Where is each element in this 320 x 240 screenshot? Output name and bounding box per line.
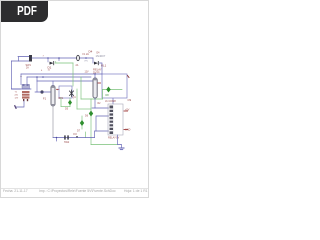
schematic drawing [1, 1, 150, 199]
junction dot bottom [56, 137, 58, 139]
svg-text:J1 CON8: J1 CON8 [105, 99, 116, 103]
diode D1 bar [53, 61, 55, 64]
svg-text:C9: C9 [128, 98, 132, 102]
green long vert [90, 99, 92, 145]
wire secondary to port [16, 101, 24, 107]
green relay inner vert [102, 90, 104, 100]
svg-text:2A: 2A [26, 67, 29, 70]
pin stub +5V [124, 110, 128, 112]
transformer primary lead 1 [20, 74, 22, 85]
green net D1 out [55, 62, 73, 64]
green LED leg right [69, 98, 71, 107]
svg-text:12V: 12V [85, 72, 90, 74]
svg-text:+5V: +5V [125, 109, 130, 112]
svg-text:D5: D5 [65, 108, 69, 111]
junction dot C [85, 57, 87, 59]
relay box K1 [102, 74, 127, 98]
PDF badge [1, 1, 48, 22]
wire lamp row [35, 91, 51, 93]
junction tick T1 lead [20, 76, 21, 77]
footer sheet text [124, 189, 148, 193]
wire AC neutral [11, 60, 30, 62]
bridge box BR1 [59, 86, 72, 98]
transformer pin b [27, 99, 28, 101]
wire D4 to relay box [100, 63, 103, 74]
rail VCC2 [27, 76, 91, 78]
diode D4 bar [97, 61, 99, 64]
svg-text:F1: F1 [43, 97, 47, 101]
svg-text:RELAY-5V: RELAY-5V [108, 137, 120, 140]
svg-text:Q1: Q1 [73, 96, 77, 99]
ground bar 1 [119, 147, 124, 149]
junction stub bottom [56, 138, 58, 142]
junction dot rail3 [36, 76, 38, 78]
pin gap 1 [110, 109, 114, 131]
svg-text:D8: D8 [106, 94, 110, 97]
svg-text:4: 4 [41, 70, 43, 72]
footer separator [1, 188, 150, 189]
bottom rail [53, 137, 95, 139]
green LED leg left [60, 98, 62, 107]
switch SW1 [29, 55, 32, 62]
svg-text:10: 10 [48, 70, 51, 72]
green horiz mid [77, 108, 91, 110]
svg-text:D7: D7 [77, 130, 81, 133]
svg-text:D4: D4 [89, 50, 93, 54]
fuse tube cap top [51, 86, 55, 88]
lamp DS1 [40, 90, 43, 93]
svg-text:12V: 12V [15, 98, 19, 100]
pin stub GND [124, 129, 128, 131]
transformer primary lead 2 [26, 77, 28, 85]
wire top rail [32, 57, 93, 59]
connector body J1 [108, 104, 123, 135]
capacitor C4 body [93, 78, 97, 98]
green vert led3 [81, 116, 83, 129]
transformer pin a [23, 99, 24, 101]
wire AC live top [18, 57, 30, 62]
wire relay to header [112, 99, 114, 105]
wire through transformer [11, 88, 31, 90]
switch SW2 contact a [64, 135, 66, 139]
green vert left2 [76, 89, 78, 109]
fuse tube FU1 [51, 86, 55, 107]
wire left drop to transformer [11, 61, 20, 89]
junction dot C4 [94, 73, 95, 74]
green drop to bridge [72, 63, 74, 86]
pin tick K1 [128, 76, 130, 78]
wire diode feed [47, 58, 49, 62]
wire header strap top [96, 116, 109, 131]
svg-text:F3: F3 [74, 132, 78, 136]
transformer nub a [23, 84, 25, 86]
connector pin ladder [110, 106, 114, 135]
junction dot rail2 [42, 76, 44, 78]
wire header strap bottom [95, 131, 110, 138]
green bottom run [91, 144, 118, 146]
svg-text:7: 7 [43, 56, 45, 58]
cap C4 top lead [94, 74, 96, 78]
svg-text:1N4007: 1N4007 [96, 54, 106, 58]
svg-text:SW1: SW1 [26, 64, 32, 67]
transformer nub b [27, 84, 29, 86]
switch SW2 contact b [67, 135, 69, 139]
LED D5 [68, 100, 72, 105]
transformer T1 winding 1 [22, 91, 30, 93]
transformer T1 top block [22, 85, 30, 90]
LED D6 [89, 111, 93, 117]
transformer T1 winding 2 [22, 94, 30, 96]
transistor Q1 [70, 90, 74, 97]
wire fuse top feed [52, 81, 54, 86]
svg-text:VIN: VIN [84, 60, 88, 62]
svg-text:SW2: SW2 [64, 141, 70, 144]
svg-text:R2: R2 [98, 103, 102, 105]
footer file path text [39, 189, 116, 193]
wire corner to D4 [92, 58, 94, 63]
power port P1 [15, 106, 16, 108]
footer date text [3, 189, 28, 193]
LED D7 [80, 120, 84, 126]
wire lamp feed [36, 81, 38, 92]
green LED bottom link [61, 106, 70, 108]
wire J1 to ground [118, 135, 122, 148]
fuse tube cap bottom [51, 104, 55, 106]
fuse F2 on rail [77, 55, 80, 60]
junction dot A [47, 57, 49, 59]
rail VCC1 [21, 73, 102, 75]
rail3 corner [36, 77, 38, 81]
node stub B [58, 58, 60, 61]
wire cap C4 bottom [94, 98, 96, 108]
green horiz to relay [81, 98, 103, 100]
green stub to rail [85, 132, 87, 138]
svg-text:220: 220 [15, 95, 19, 97]
fuse red tick [57, 88, 60, 90]
pin tick C4 [98, 82, 101, 84]
junction dot F3 [76, 136, 78, 138]
cap C4 top cap [93, 78, 97, 80]
svg-text:D6: D6 [85, 115, 89, 118]
rail VCC3 [37, 80, 93, 82]
wire to header pin1 [92, 107, 109, 109]
green relay inner horiz [103, 89, 123, 91]
transformer T1 winding 3 [22, 96, 30, 98]
svg-text:GND: GND [125, 129, 131, 132]
ground bar 2 [120, 149, 122, 151]
LED D8 [106, 87, 110, 93]
svg-text:2A: 2A [76, 64, 79, 67]
green vert mid [80, 77, 82, 99]
wire fuse lead down [52, 106, 54, 138]
junction dot B [58, 57, 60, 59]
diode D4 [94, 62, 98, 65]
diode D1 [50, 62, 54, 65]
svg-text:T1: T1 [15, 92, 18, 94]
